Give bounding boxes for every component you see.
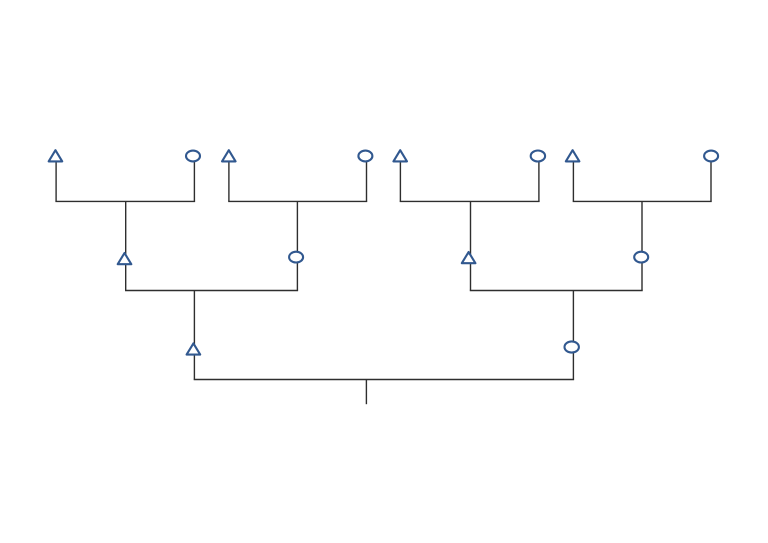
female C7 [565, 341, 579, 352]
wire stem under male T4 [572, 156, 574, 201]
male T3 [393, 150, 407, 161]
male T5 [118, 253, 132, 264]
wire stem under female C1 [193, 156, 195, 201]
female C6 [634, 252, 648, 263]
wire marriage bar H5 [125, 290, 298, 292]
female C1 [186, 151, 200, 162]
wire descent D5 to male T7 [193, 291, 195, 380]
wire descent D1 to male T5 [125, 201, 127, 290]
wire marriage bar H7 [194, 379, 574, 381]
wire marriage bar H1 [55, 200, 195, 202]
wire descent D6 to female C7 [572, 291, 574, 380]
wire stem under male T1 [55, 156, 57, 201]
wire descent D7 stub [365, 380, 367, 405]
wire stem under female C4 [710, 156, 712, 201]
female C4 [704, 151, 718, 162]
wire stem under male T3 [399, 156, 401, 201]
wire stem under female C3 [538, 156, 540, 201]
female C5 [289, 252, 303, 263]
wire marriage bar H4 [573, 200, 712, 202]
male T4 [566, 150, 580, 161]
male T7 [187, 343, 201, 354]
female C3 [531, 151, 545, 162]
male T6 [462, 252, 476, 263]
wire marriage bar H6 [470, 290, 643, 292]
wire descent D3 to male T6 [470, 201, 472, 290]
wire stem under male T2 [228, 156, 230, 201]
female C2 [358, 151, 372, 162]
wire descent D2 to female C5 [296, 201, 298, 290]
male T1 [49, 150, 63, 161]
wire marriage bar H2 [228, 200, 367, 202]
wire descent D4 to female C6 [641, 201, 643, 290]
wire stem under female C2 [366, 156, 368, 201]
male T2 [222, 150, 236, 161]
wire marriage bar H3 [400, 200, 540, 202]
